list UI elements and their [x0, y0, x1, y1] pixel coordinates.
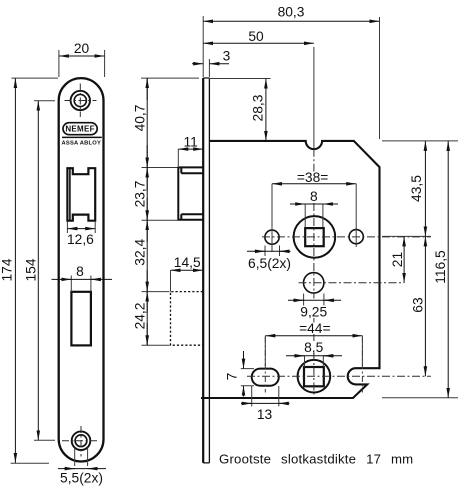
centerline horizontal bottom row [247, 375, 431, 377]
dim 28,3 extension top [209, 78, 270, 80]
dim 12,6 extension lines [67, 222, 95, 234]
bottom left slot [252, 369, 279, 386]
dim 6,5 line with outside arrows [247, 250, 288, 252]
svg-text:116,5: 116,5 [433, 250, 448, 284]
dim 5,5(2x) extension lines [75, 448, 88, 467]
bottom screw hole outer [72, 431, 91, 450]
dim 8,5 line with outside arrows [286, 355, 342, 357]
dim 174 extension top [11, 77, 58, 79]
svg-text:80,3: 80,3 [278, 5, 305, 20]
dim 174 extension bottom [11, 462, 49, 464]
svg-text:8: 8 [310, 189, 318, 204]
dim 13 extensions [252, 386, 279, 406]
bottom screw hole inner [75, 435, 87, 447]
chain dim extensions left side [141, 78, 199, 345]
middle hole 9.25 [304, 273, 324, 293]
chain dim line 40,7 / 23,7 / 32,4 / 24,2 [146, 78, 148, 345]
svg-text:174: 174 [0, 258, 15, 281]
svg-text:43,5: 43,5 [409, 175, 424, 202]
bottom follower circle [298, 360, 331, 393]
svg-text:Grootste slotkastdikte 17 mm: Grootste slotkastdikte 17 mm [219, 452, 413, 467]
bottom screw centerline vertical [80, 426, 82, 457]
deadbolt thrown (dashed, side view) [171, 292, 203, 346]
dim 9,25 extensions [304, 294, 324, 306]
svg-text:ASSA ABLOY: ASSA ABLOY [62, 141, 102, 147]
dim 7 extensions [241, 369, 254, 386]
dim 116,5 extension bottom [382, 397, 458, 399]
svg-text:154: 154 [23, 258, 38, 281]
latch opening inner left line [69, 168, 71, 221]
svg-text:3: 3 [223, 49, 231, 64]
svg-text:9,25: 9,25 [300, 304, 327, 319]
centerline vertical bottom right slot [361, 337, 363, 393]
dim 50 extension right [313, 47, 315, 149]
centerline horizontal follower row [262, 236, 431, 238]
bottom screw centerline horizontal [62, 440, 98, 442]
top screw centerline horizontal [65, 100, 97, 102]
dim 7 lines with outside arrows [243, 351, 245, 369]
dim 11 extension [177, 149, 179, 166]
svg-text:8,5: 8,5 [304, 340, 324, 355]
svg-text:6,5(2x): 6,5(2x) [248, 256, 291, 271]
dim 154 line [37, 101, 39, 441]
dim 12,6 line [67, 228, 95, 230]
dim 21 line [403, 236, 405, 282]
dim 8 follower line with outside arrows [290, 203, 338, 205]
svg-text:14,5: 14,5 [174, 255, 201, 270]
svg-text:63: 63 [410, 297, 425, 313]
dim 50 line [203, 42, 314, 44]
fixing hole right 6.5mm [349, 230, 363, 244]
dim 8,5 extensions [305, 356, 324, 367]
centerline vertical bottom left slot [264, 337, 266, 393]
dim 8 follower extensions [305, 204, 323, 228]
centerline horizontal mid hole row [299, 282, 405, 284]
dim 13 line with outside arrows [246, 402, 285, 404]
dim 9,25 line with outside arrows [288, 299, 341, 301]
svg-text:=38=: =38= [297, 170, 328, 185]
centerline vertical follower axis [313, 149, 315, 395]
top screw centerline vertical [79, 84, 81, 118]
ASSA ABLOY underline [62, 136, 102, 138]
dim 80,3 line [203, 20, 379, 22]
svg-text:40,7: 40,7 [132, 105, 147, 132]
svg-text:21: 21 [390, 252, 405, 267]
svg-text:=44=: =44= [299, 321, 330, 336]
dim 6,5(2x) extensions [265, 246, 280, 257]
fixing hole left 6.5mm [265, 230, 279, 244]
dim 5,5 line with outside arrows [58, 468, 106, 470]
faceplate edge strip (side view) [202, 78, 204, 463]
dim 3 lines with outside arrows [192, 63, 203, 65]
dim 14,5 extension [170, 270, 172, 291]
dim =38= line [272, 183, 356, 185]
dim =38= extensions [272, 184, 356, 229]
dim =44= line [265, 335, 362, 337]
svg-text:24,2: 24,2 [132, 303, 147, 330]
bottom square spindle hole [304, 367, 324, 386]
svg-text:13: 13 [257, 407, 273, 422]
svg-text:28,3: 28,3 [251, 94, 266, 121]
dim 63 line [424, 236, 426, 376]
svg-text:32,4: 32,4 [132, 239, 147, 266]
dim 20 extension lines [59, 50, 105, 77]
faceplate outline (front view) [59, 78, 104, 461]
svg-text:12,6: 12,6 [67, 232, 94, 247]
dim =44= extensions [265, 336, 362, 366]
deadbolt slot (front view) [71, 292, 91, 346]
top screw hole outer [71, 91, 90, 110]
dim 80,3 extension right [203, 16, 379, 139]
dim 174 line [14, 78, 16, 463]
top screw hole inner [74, 94, 86, 106]
latch bolt (side view) [178, 167, 203, 219]
svg-text:20: 20 [74, 41, 90, 56]
dim 116,5 line [447, 141, 449, 398]
svg-text:11: 11 [184, 135, 198, 150]
lock case outline with top notch, chamfers and open slot [201, 141, 380, 398]
svg-text:8: 8 [76, 264, 84, 279]
dim 154 extension bottom [34, 439, 55, 441]
follower square spindle hole [305, 228, 324, 246]
dim 28,3 line [265, 79, 267, 141]
NEMEF logo stadium [63, 123, 97, 135]
svg-text:5,5(2x): 5,5(2x) [60, 471, 103, 486]
dim 8 deadbolt line with outside arrows [52, 278, 113, 280]
dim 154 extension top [34, 100, 55, 102]
svg-text:23,7: 23,7 [132, 181, 147, 208]
dim 20 line [59, 55, 105, 57]
follower hole circle [294, 216, 336, 258]
svg-text:7: 7 [225, 373, 240, 381]
dim 8 deadbolt extension lines [71, 276, 91, 292]
svg-text:NEMEF: NEMEF [65, 125, 95, 134]
dim 14,5 line [171, 269, 203, 271]
latch opening outline (front view) [67, 168, 95, 221]
centerline vertical left fixing hole [271, 228, 273, 252]
dim 11 line [178, 148, 203, 150]
dim 43,5 line [424, 141, 426, 237]
dim 3 extension line [208, 59, 210, 77]
svg-text:50: 50 [248, 29, 264, 44]
centerline vertical right fixing hole [355, 228, 357, 247]
dim 43,5 extension top [382, 141, 458, 237]
